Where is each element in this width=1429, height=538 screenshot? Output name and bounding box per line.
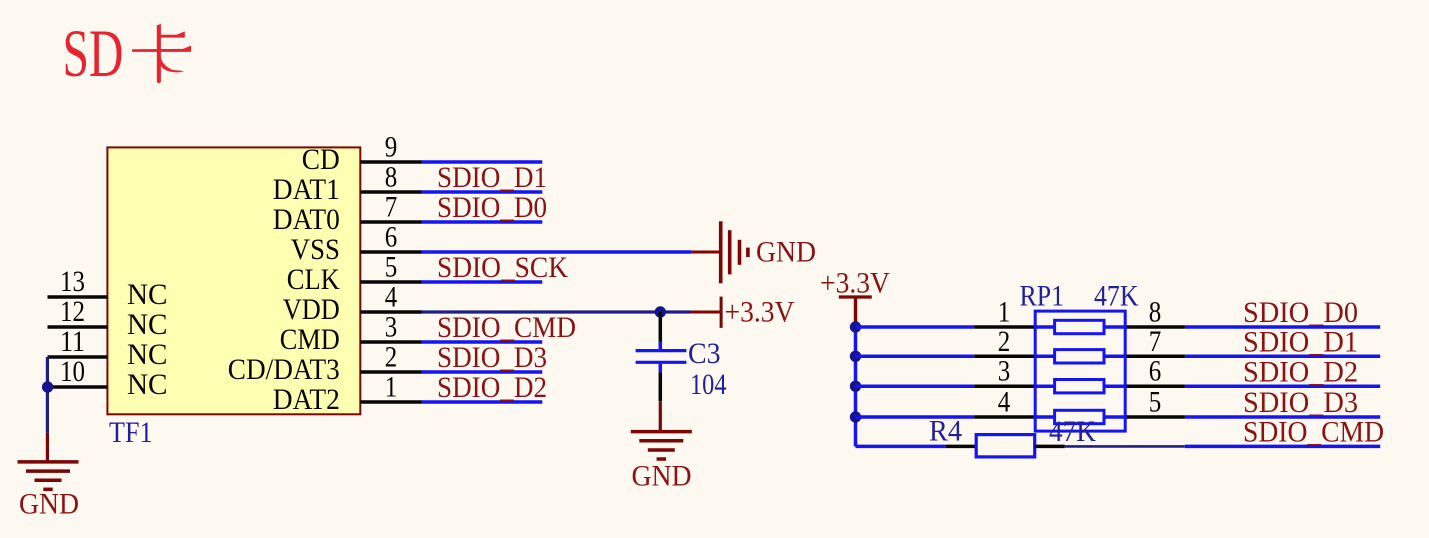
svg-text:10: 10 [60, 356, 85, 388]
wire net SDIO_D2 right [1185, 384, 1380, 388]
svg-text:SDIO_CMD: SDIO_CMD [437, 312, 576, 344]
TF1 pin 13 wire [48, 295, 108, 299]
wire stub net SDIO_CMD [422, 340, 542, 344]
wire net SDIO_D1 right [1185, 355, 1380, 359]
svg-text:3: 3 [998, 356, 1011, 388]
svg-text:SDIO_CMD: SDIO_CMD [1243, 417, 1384, 449]
title SD卡 [63, 16, 192, 91]
wire NC pins to ground (vertical) [46, 357, 49, 433]
TF1 pin 8 wire [360, 190, 422, 194]
power +3.3V (RP1) bar [839, 295, 872, 298]
wire net SDIO_CMD right [1185, 445, 1380, 449]
svg-text:3: 3 [385, 312, 398, 344]
svg-text:4: 4 [385, 282, 398, 314]
svg-text:8: 8 [1149, 297, 1162, 329]
RP1 pin 3 wire [974, 384, 1035, 388]
wire rail to RP1 pin 1 [856, 325, 975, 329]
wire stub net SDIO_D1 [422, 190, 542, 194]
svg-text:12: 12 [60, 296, 85, 328]
svg-text:SDIO_D0: SDIO_D0 [437, 192, 547, 224]
junction node rail row 1 [850, 321, 861, 332]
svg-text:SDIO_D1: SDIO_D1 [1243, 327, 1358, 359]
TF1 pin 6 wire [360, 250, 422, 254]
power +3.3V (VDD) bar [720, 297, 723, 328]
ground GND center [631, 432, 692, 459]
capacitor C3 plates [636, 349, 687, 352]
RP1 internal wire left row 1 [1035, 325, 1054, 329]
svg-text:DAT2: DAT2 [273, 384, 340, 416]
svg-text:11: 11 [60, 326, 85, 358]
RP1 pin 1 wire [974, 325, 1035, 329]
RP1 pin 2 wire [974, 355, 1035, 359]
svg-text:47K: 47K [1049, 416, 1096, 448]
RP1 internal wire right row 4 [1104, 415, 1125, 419]
svg-text:CLK: CLK [287, 264, 340, 296]
junction node VDD/C3 [655, 306, 666, 317]
RP1 internal wire left row 3 [1035, 384, 1054, 388]
svg-text:5: 5 [385, 252, 398, 284]
TF1 pin 1 wire [360, 400, 422, 404]
wire stub net SDIO_D3 [422, 370, 542, 374]
svg-text:+3.3V: +3.3V [725, 297, 795, 329]
svg-text:6: 6 [1149, 356, 1162, 388]
svg-text:NC: NC [127, 279, 168, 311]
svg-text:9: 9 [385, 132, 398, 164]
RP1 pin 4 wire [974, 415, 1035, 419]
svg-text:2: 2 [998, 326, 1011, 358]
svg-text:SDIO_D1: SDIO_D1 [437, 162, 547, 194]
svg-text:DAT1: DAT1 [273, 174, 340, 206]
RP1 pin 8 wire [1125, 325, 1185, 329]
svg-text:13: 13 [60, 266, 85, 298]
svg-text:CD/DAT3: CD/DAT3 [228, 354, 340, 386]
svg-text:GND: GND [19, 489, 79, 521]
wire stub net SDIO_D2 [422, 400, 542, 404]
junction node rail row 2 [850, 351, 861, 362]
TF1 pin 9 wire [360, 160, 422, 164]
RP1 internal wire right row 3 [1104, 384, 1125, 388]
wire rail to RP1 pin 2 [856, 355, 975, 359]
TF1 pin 5 wire [360, 280, 422, 284]
R4 pin 1 wire [946, 445, 976, 449]
svg-text:RP1: RP1 [1020, 280, 1065, 312]
svg-text:47K: 47K [1094, 280, 1139, 312]
RP1 pin 7 wire [1125, 355, 1185, 359]
TF1 pin 10 wire [48, 385, 108, 389]
resistor RP1 element 2 body [1055, 350, 1104, 363]
svg-text:SDIO_D0: SDIO_D0 [1243, 297, 1358, 329]
wire +3.3V stem [854, 297, 857, 327]
svg-text:NC: NC [127, 339, 168, 371]
svg-text:4: 4 [998, 387, 1011, 419]
TF1 pin 11 wire [48, 355, 108, 359]
ground GND left [18, 462, 79, 489]
TF1 pin 2 wire [360, 370, 422, 374]
junction node pin10/ground [42, 381, 53, 392]
svg-text:NC: NC [127, 369, 168, 401]
RP1 pin 5 wire [1125, 415, 1185, 419]
svg-text:SDIO_D3: SDIO_D3 [437, 342, 547, 374]
wire +3.3V rail vertical [854, 327, 858, 446]
resistor RP1 element 3 body [1055, 380, 1104, 393]
svg-text:SD: SD [63, 16, 124, 91]
svg-text:VDD: VDD [283, 294, 340, 326]
TF1 pin 3 wire [360, 340, 422, 344]
svg-text:CD: CD [302, 144, 340, 176]
wire VDD net [422, 310, 691, 313]
TF1 pin 7 wire [360, 220, 422, 224]
TF1 pin 12 wire [48, 325, 108, 329]
svg-text:GND: GND [632, 461, 692, 493]
svg-text:C3: C3 [688, 338, 721, 370]
R4 pin 2 wire [1035, 445, 1065, 449]
svg-text:VSS: VSS [291, 234, 340, 266]
svg-text:SDIO_D3: SDIO_D3 [1243, 387, 1358, 419]
IC TF1 body [107, 147, 360, 414]
junction node rail row 3 [850, 381, 861, 392]
svg-text:GND: GND [756, 236, 816, 268]
wire stub net SDIO_D0 [422, 220, 542, 224]
wire stub net SDIO_SCK [422, 280, 542, 284]
RP1 internal wire left row 4 [1035, 415, 1054, 419]
svg-text:NC: NC [127, 309, 168, 341]
RP1 internal wire left row 2 [1035, 355, 1054, 359]
svg-text:7: 7 [1149, 326, 1162, 358]
svg-text:2: 2 [385, 342, 398, 374]
RP1 pin 6 wire [1125, 384, 1185, 388]
svg-text:+3.3V: +3.3V [820, 267, 890, 299]
wire rail to RP1 pin 4 [856, 415, 975, 419]
resistor RP1 element 1 body [1055, 320, 1104, 333]
svg-text:104: 104 [690, 369, 727, 401]
svg-text:5: 5 [1149, 387, 1162, 419]
wire C3 to ground [659, 364, 663, 373]
resistor RP1 element 4 body [1055, 410, 1104, 423]
TF1 pin 4 wire [360, 310, 422, 314]
wire SDIO_CMD thin [1065, 445, 1185, 448]
wire stub pin 9 [422, 160, 542, 164]
svg-text:6: 6 [385, 222, 398, 254]
wire rail corner to R4 [856, 445, 946, 449]
svg-text:1: 1 [998, 297, 1011, 329]
svg-text:SDIO_D2: SDIO_D2 [1243, 356, 1358, 388]
svg-text:R4: R4 [929, 416, 962, 448]
RP1 internal wire right row 1 [1104, 325, 1125, 329]
svg-text:SDIO_SCK: SDIO_SCK [437, 252, 568, 284]
svg-text:SDIO_D2: SDIO_D2 [437, 372, 547, 404]
wire net SDIO_D3 right [1185, 415, 1380, 419]
wire VDD junction to C3 [659, 312, 663, 344]
wire net SDIO_D0 right [1185, 325, 1380, 329]
wire rail to RP1 pin 3 [856, 384, 975, 388]
svg-text:CMD: CMD [280, 324, 340, 356]
RP1 internal wire right row 2 [1104, 355, 1125, 359]
svg-text:7: 7 [385, 192, 398, 224]
junction node rail row 4 [850, 411, 861, 422]
svg-text:TF1: TF1 [109, 417, 153, 449]
svg-text:1: 1 [385, 372, 398, 404]
resistor network RP1 box [1035, 311, 1125, 431]
svg-text:DAT0: DAT0 [273, 204, 340, 236]
resistor R4 body [976, 435, 1034, 457]
ground GND right (rotated bars) [721, 221, 748, 283]
svg-text:8: 8 [385, 162, 398, 194]
wire VSS net to ground [422, 250, 692, 254]
